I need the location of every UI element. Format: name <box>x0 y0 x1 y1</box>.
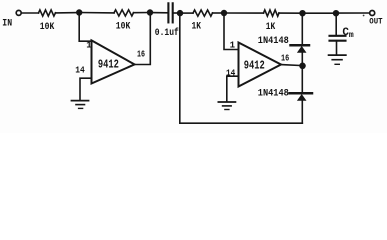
diode D2 1N4148 <box>290 93 313 100</box>
node J6 <box>333 10 339 16</box>
resistor R1 10K <box>39 10 56 16</box>
wire <box>213 12 225 14</box>
svg-text:1K: 1K <box>266 22 276 33</box>
node J7 <box>299 63 306 70</box>
wire U2 output to node J7 <box>281 65 302 66</box>
svg-text:9412: 9412 <box>98 57 119 71</box>
wire <box>134 12 151 14</box>
capacitor Cm <box>330 36 346 41</box>
terminal IN <box>16 10 21 15</box>
terminal OUT <box>370 11 375 16</box>
svg-text:10K: 10K <box>40 22 55 33</box>
resistor R4 1K <box>264 10 279 16</box>
svg-text:0.1uf: 0.1uf <box>155 27 179 39</box>
svg-text:1N4148: 1N4148 <box>258 88 289 99</box>
svg-text:16: 16 <box>281 53 289 63</box>
wire J7 to D2 <box>301 66 303 93</box>
svg-text:9412: 9412 <box>244 59 265 73</box>
resistor R2 10K <box>114 10 134 16</box>
wire bottom feedback rail <box>180 122 302 124</box>
wire J4 down to U2 pin 1 <box>224 13 239 50</box>
op-amp U1 9412 <box>92 40 135 83</box>
wire J5 down to D1 <box>301 13 303 44</box>
wire U1 output to J2 <box>135 14 151 65</box>
resistor R3 1K <box>193 10 213 16</box>
wire <box>56 12 80 14</box>
ground U2 <box>218 102 235 110</box>
wire D1 to J7 <box>301 52 303 63</box>
wire <box>150 12 167 14</box>
svg-text:10K: 10K <box>116 22 131 33</box>
wire <box>224 12 264 14</box>
wire J1 down to U1 pin 1 <box>79 13 91 42</box>
node J3 <box>177 10 183 16</box>
ground U1 <box>72 101 89 109</box>
op-amp U2 9412 <box>239 43 282 87</box>
node J2 <box>147 9 153 15</box>
wire Cm to ground <box>336 41 338 55</box>
diode D1 1N4148 <box>291 45 310 52</box>
wire <box>279 12 303 14</box>
node J1 <box>76 9 82 15</box>
wire U1 pin 14 <box>80 78 92 100</box>
wire <box>22 12 39 14</box>
svg-text:16: 16 <box>137 50 145 60</box>
wire U2 pin 14 <box>227 76 239 101</box>
speck <box>363 15 365 17</box>
node J4 <box>221 10 227 16</box>
svg-text:OUT: OUT <box>369 17 382 27</box>
svg-text:1K: 1K <box>192 21 202 32</box>
ground Cm <box>329 55 346 64</box>
label Cm <box>342 27 354 40</box>
capacitor C1 0.1uf <box>168 3 172 22</box>
svg-text:IN: IN <box>2 19 12 30</box>
wire <box>180 12 193 14</box>
svg-text:14: 14 <box>75 64 85 75</box>
node J5 <box>299 10 305 16</box>
wire J3 down (feedback riser) <box>179 13 181 123</box>
svg-text:1N4148: 1N4148 <box>258 36 289 47</box>
svg-text:1: 1 <box>230 41 236 51</box>
wire <box>303 12 337 14</box>
wire D2 down to bottom rail <box>301 100 303 123</box>
wire <box>79 12 114 14</box>
svg-text:m: m <box>349 31 354 40</box>
wire <box>336 12 370 14</box>
wire <box>174 12 180 14</box>
wire J6 down to Cm <box>335 13 337 35</box>
